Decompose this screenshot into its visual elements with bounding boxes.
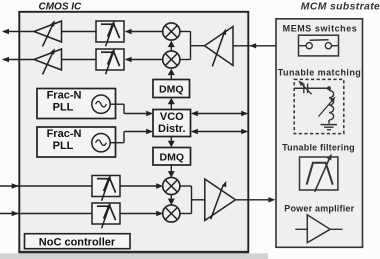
svg-text:PLL: PLL (53, 101, 74, 113)
svg-text:Tunable filtering: Tunable filtering (282, 142, 355, 152)
svg-text:NoC controller: NoC controller (39, 237, 116, 249)
svg-text:CMOS IC: CMOS IC (39, 1, 83, 12)
svg-text:Frac-N: Frac-N (47, 90, 82, 102)
svg-text:DMQ: DMQ (159, 83, 184, 95)
svg-text:VCO: VCO (160, 111, 184, 123)
svg-text:Distr.: Distr. (158, 123, 186, 135)
svg-text:Power amplifier: Power amplifier (284, 204, 354, 214)
svg-text:Tunable matching: Tunable matching (278, 68, 362, 78)
svg-text:PLL: PLL (53, 140, 74, 152)
svg-text:Frac-N: Frac-N (47, 128, 82, 140)
svg-text:MEMS switches: MEMS switches (283, 23, 358, 33)
svg-text:MCM substrate: MCM substrate (301, 2, 380, 13)
svg-text:DMQ: DMQ (160, 151, 185, 163)
